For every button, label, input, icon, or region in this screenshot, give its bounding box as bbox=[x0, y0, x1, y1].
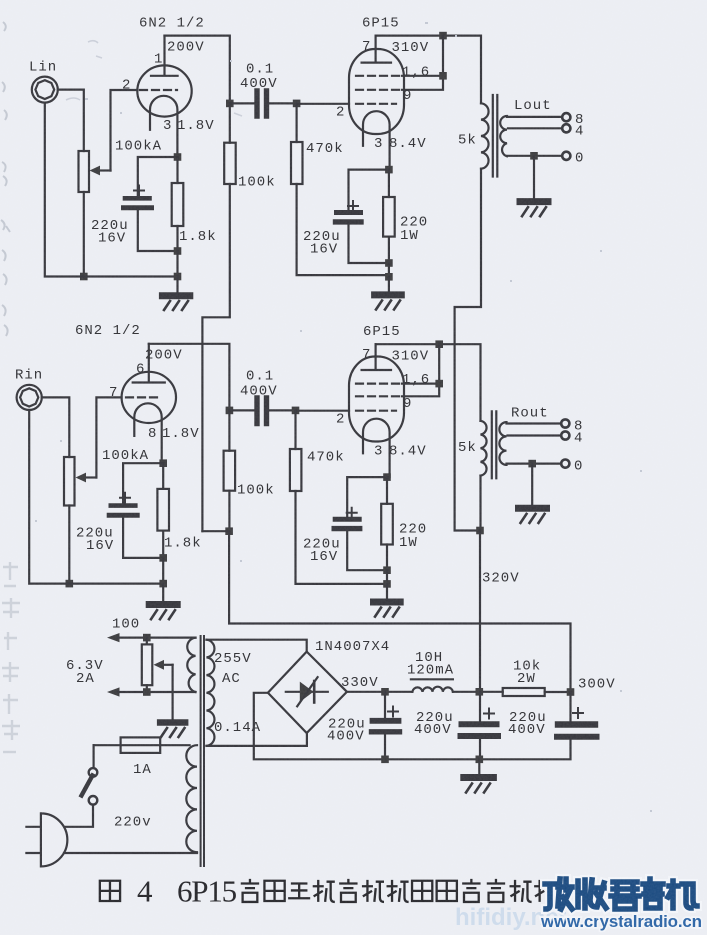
node R 220 bottom bbox=[383, 566, 391, 574]
capacitor C8 220u/400V (second) bbox=[479, 692, 481, 722]
T1 secondary lead 0 bbox=[507, 155, 562, 157]
U4 plate bbox=[362, 344, 391, 370]
node R 1.8k bottom bbox=[159, 554, 167, 562]
triode U3 6N2 (R) envelope bbox=[122, 372, 176, 423]
resistor R1 1.8k (L) bbox=[176, 157, 178, 183]
jack Rin bbox=[17, 385, 42, 410]
potentiometer RP2 100kA (R) body bbox=[64, 457, 75, 506]
wire jack sleeve down + ground rail (L) bbox=[45, 103, 178, 277]
caption char cjk3 bbox=[387, 880, 409, 902]
capacitor C3 220u/16V (L 6P15) bbox=[349, 170, 389, 210]
U1 plate bbox=[151, 36, 178, 76]
node L 6N2 ground bbox=[174, 273, 182, 281]
wire T2 primary bottom to B+ node bbox=[479, 476, 481, 531]
watermark kuangshi shouyinji bbox=[545, 879, 697, 909]
resistor R3 100k (L): plate load bbox=[229, 103, 231, 142]
node 330V bbox=[381, 688, 389, 696]
node R 100k bottom joins L feed bbox=[225, 527, 233, 535]
U3 plate bbox=[133, 344, 165, 383]
heater line bottom arrow bbox=[107, 687, 120, 696]
resistor R8 100k (R): plate load bbox=[228, 410, 230, 450]
plug pins bbox=[26, 827, 41, 853]
wire plate to coupling node bbox=[165, 36, 230, 104]
node T2 0-tap bbox=[528, 460, 536, 468]
node R 6P15 ground bbox=[383, 580, 391, 588]
node pot-bottom on rail bbox=[80, 273, 88, 281]
capacitor C5 220u/16V (R 6N2) bbox=[123, 463, 163, 503]
mains plug bbox=[41, 813, 67, 866]
node L cathode top bbox=[174, 153, 182, 161]
wire pot bottom to ground rail bbox=[83, 192, 85, 277]
node L 6P15 grid bbox=[293, 100, 301, 108]
wire grid node to 6P15 bbox=[296, 410, 350, 412]
node hum pot top bbox=[143, 634, 151, 642]
capacitor C7 220u/400V (first) bbox=[384, 692, 386, 718]
watermark halo bbox=[545, 879, 697, 909]
node R 310V bbox=[435, 340, 443, 348]
node L 1.8k bottom bbox=[174, 247, 182, 255]
wire U2 plate top rail bbox=[376, 36, 481, 104]
fuse F1 1A bbox=[94, 744, 190, 746]
wire T1 primary bottom to B+ node bbox=[455, 169, 481, 531]
capacitor C4 0.1/400V (R) bbox=[257, 398, 267, 424]
node L 310V bbox=[439, 32, 447, 40]
T1 secondary bbox=[500, 116, 507, 156]
wire down to 300V feed rail bbox=[229, 531, 570, 692]
U2 control grid dashed bbox=[356, 103, 396, 105]
transformer T1 5k OPT (L) primary bbox=[481, 103, 489, 168]
node R 6P15 grid bbox=[292, 407, 300, 415]
potentiometer RP1 100kA (L) body bbox=[79, 151, 90, 192]
resistor R10 10k 2W bbox=[503, 688, 545, 696]
wire grid to wiper bbox=[111, 90, 138, 171]
caption char cjk3 bbox=[313, 880, 335, 902]
wire bridge plus to 330V node bbox=[347, 691, 413, 693]
node L 6P15 ground bbox=[385, 273, 393, 281]
wire cap to grid node bbox=[270, 409, 296, 411]
ground PSU bbox=[478, 759, 480, 774]
U3 grid (dashed) bbox=[126, 396, 162, 398]
caption char cjk1 bbox=[264, 881, 284, 901]
wire HV top to bridge bbox=[207, 640, 307, 652]
resistor R6 1.8k (R) bbox=[162, 463, 164, 489]
caption char cjk3 bbox=[534, 880, 556, 902]
capacitor C6 220u/16V (R 6P15) bbox=[347, 477, 387, 517]
node L screen bbox=[439, 72, 447, 80]
wire to ground node (R) bbox=[386, 570, 388, 584]
node L 220 bottom bbox=[385, 259, 393, 267]
ground R 6P15 bbox=[386, 584, 388, 599]
caption char cjk3 bbox=[510, 880, 532, 902]
T2 secondary lead 8 bbox=[507, 422, 561, 424]
node R plate/coupling bbox=[226, 407, 234, 415]
triode U1 6N2 (L) envelope bbox=[137, 65, 191, 116]
wire U4 plate top rail bbox=[376, 344, 481, 421]
resistor R9 470k (R): grid leak bbox=[294, 410, 296, 449]
wire node to cap C1 bbox=[230, 102, 254, 104]
RP1 wiper arrow bbox=[99, 169, 111, 171]
ground L 6N2 bbox=[176, 277, 178, 293]
ground L 6P15 bbox=[388, 277, 390, 292]
caption char cjk4 bbox=[241, 879, 259, 902]
resistor R5 220 1W (L) bbox=[388, 170, 390, 197]
scan dither noise bbox=[0, 0, 1, 1]
U2 screen grid dashed bbox=[356, 75, 399, 77]
wire to rail node bbox=[162, 558, 164, 584]
node C7 bottom bbox=[381, 756, 389, 764]
bridge rectifier D1 1N4007X4 diamond bbox=[268, 652, 347, 733]
U3 cathode bbox=[134, 403, 161, 463]
wire plate to coupling node bbox=[149, 344, 230, 411]
ground R 6N2 bbox=[162, 584, 164, 601]
T3 primary 220v winding bbox=[64, 852, 197, 854]
switch S1 bbox=[92, 745, 94, 768]
T1 core bbox=[493, 95, 498, 177]
transformer T3 heater winding 6.3V bbox=[187, 638, 195, 692]
T1 secondary lead 4 bbox=[508, 127, 562, 129]
heater line top arrow bbox=[107, 633, 120, 642]
capacitor C2 220u/16V (L 6N2) bbox=[138, 157, 178, 196]
node R 6P15 cathode bbox=[383, 473, 391, 481]
caption char cjk1 bbox=[437, 881, 457, 901]
T3 core bbox=[201, 636, 204, 866]
wire pot bottom to ground rail bbox=[68, 506, 70, 584]
wire jack to pot top bbox=[42, 397, 70, 457]
T2 secondary bbox=[499, 422, 506, 465]
wire to ground node bbox=[388, 263, 390, 277]
capacitor C1 0.1/400V (L) bbox=[257, 91, 267, 116]
T2 secondary lead 0 bbox=[507, 463, 561, 465]
wire node to cap C4 bbox=[229, 409, 254, 411]
U2 cathode bbox=[363, 111, 390, 169]
caption char cjk4 bbox=[462, 879, 480, 902]
node pot-bottom on rail (R) bbox=[66, 580, 74, 588]
wire jog from L 100k bbox=[202, 530, 229, 532]
wire choke to 320V node bbox=[453, 691, 503, 693]
wire grid node to 6P15 bbox=[297, 103, 349, 105]
node R screen bbox=[435, 380, 443, 388]
resistor R4 470k (L): grid leak bbox=[296, 103, 298, 142]
U4 cathode bbox=[363, 419, 390, 477]
wire B+ down to supply bbox=[479, 531, 481, 692]
wire jack to pot top bbox=[58, 90, 84, 151]
T2 core bbox=[492, 411, 497, 478]
node L 6P15 cathode bbox=[385, 166, 393, 174]
caption char cjk1 bbox=[412, 881, 432, 901]
transformer T2 5k OPT (R) primary bbox=[481, 421, 487, 476]
wire HV bottom to bridge bottom corner bbox=[207, 733, 307, 746]
node T1 0-tap bbox=[530, 152, 538, 160]
wire jack sleeve down + ground rail (R) bbox=[29, 410, 163, 584]
bridge inner diode bbox=[286, 691, 328, 693]
node 300V bbox=[567, 688, 575, 696]
wire grid to wiper bbox=[96, 397, 121, 477]
jack Lin bbox=[32, 77, 58, 103]
wire bridge minus to ground rail bbox=[254, 693, 571, 760]
capacitor C9 220u/400V (third) bbox=[569, 692, 571, 722]
U1 grid (dashed) bbox=[140, 89, 177, 91]
node R 6N2 ground bbox=[159, 580, 167, 588]
ground T2 bbox=[531, 464, 533, 505]
node hum pot bottom bbox=[143, 688, 151, 696]
U4 control grid dashed bbox=[356, 410, 396, 412]
caption char cjk4 bbox=[487, 879, 505, 902]
U4 suppressor dashed bbox=[356, 395, 399, 397]
caption char cjk2 bbox=[288, 884, 310, 899]
potentiometer RP3 100 hum body bbox=[146, 638, 148, 645]
ground hum pot bbox=[160, 719, 185, 726]
node B+ 320V junction bbox=[476, 527, 484, 535]
node R cathode top bbox=[159, 459, 167, 467]
U4 screen grid dashed bbox=[356, 383, 399, 385]
RP3 wiper arrow bbox=[164, 664, 173, 666]
caption char tu bbox=[100, 881, 120, 901]
T2 secondary lead 4 bbox=[508, 434, 561, 436]
ground T1 bbox=[533, 156, 535, 199]
wire wiper to ground bbox=[172, 665, 174, 719]
U1 cathode bbox=[150, 96, 177, 157]
wire screen tie bbox=[402, 36, 443, 90]
caption char cjk3 bbox=[362, 880, 384, 902]
resistor R7 220 1W (R) bbox=[386, 477, 388, 504]
caption char cjk4 bbox=[339, 879, 357, 902]
node L plate/coupling bbox=[226, 100, 234, 108]
RP2 wiper arrow bbox=[86, 476, 96, 478]
T3 HV winding 255V bbox=[207, 640, 215, 746]
wire cap to grid node bbox=[270, 102, 297, 104]
node C8 bottom / ground bbox=[476, 756, 484, 764]
wire to rail node bbox=[176, 251, 178, 277]
wire screen tie (R) bbox=[402, 344, 439, 396]
T1 secondary lead 8 bbox=[507, 116, 562, 118]
node 320V junction bbox=[476, 688, 484, 696]
U2 suppressor dashed bbox=[356, 89, 399, 91]
choke L1 10H 120mA bbox=[412, 687, 453, 692]
U2 plate bbox=[362, 36, 391, 63]
